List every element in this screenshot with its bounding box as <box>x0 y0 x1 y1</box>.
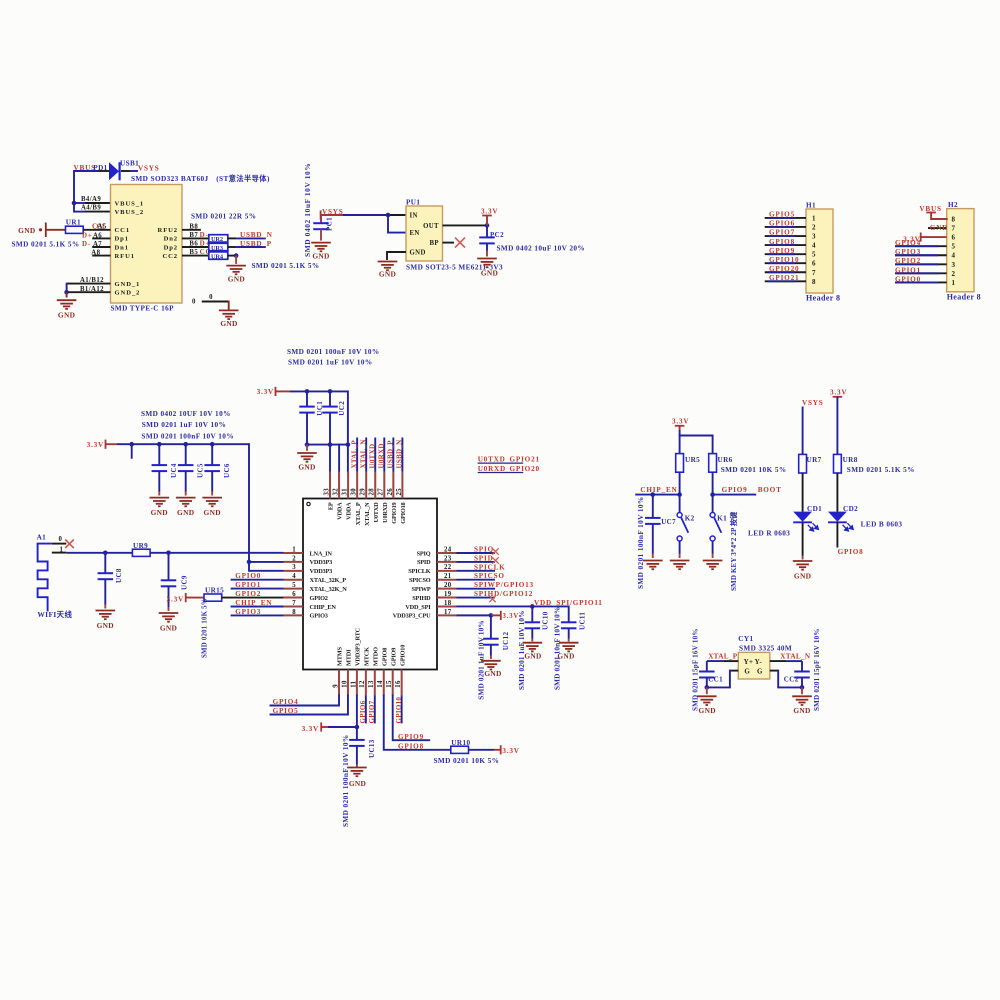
wire H2 pin 3 <box>895 263 947 265</box>
svg-text:8: 8 <box>292 609 296 616</box>
designator UC2 <box>338 401 346 416</box>
svg-text:USBD_N: USBD_N <box>240 231 273 239</box>
power port 3.3V (UC1 rail) <box>257 387 276 396</box>
svg-text:XTAL_N: XTAL_N <box>364 502 371 526</box>
svg-text:GPIO3: GPIO3 <box>895 248 921 256</box>
svg-text:3: 3 <box>952 261 956 269</box>
pin 13 stub <box>368 670 375 696</box>
svg-text:MTMS: MTMS <box>337 647 344 666</box>
svg-text:PU1: PU1 <box>406 198 420 206</box>
svg-text:K1: K1 <box>717 514 727 522</box>
svg-text:19: 19 <box>444 591 452 598</box>
svg-text:32: 32 <box>332 488 339 496</box>
pin 20 stub <box>437 582 457 589</box>
pin 31 stub <box>342 472 349 499</box>
ground UC8 <box>96 611 116 631</box>
pin 16 stub <box>395 670 402 696</box>
power port 3.3V (H2 pin 6) <box>903 233 946 244</box>
svg-text:3.3V: 3.3V <box>503 613 520 620</box>
svg-text:D-: D- <box>82 240 91 248</box>
value LED B 0603 <box>861 520 903 528</box>
net label GPIO21 (H1 pin 8) <box>769 274 799 282</box>
svg-text:GPIO19: GPIO19 <box>391 502 398 523</box>
net label GPIO6 vertical <box>359 700 367 723</box>
svg-text:31: 31 <box>342 488 349 496</box>
designator CC1 <box>708 675 723 683</box>
wire diode to VSYS <box>121 170 138 172</box>
svg-text:U0TXD: U0TXD <box>373 502 380 523</box>
svg-text:UC9: UC9 <box>181 575 189 590</box>
value SMD 0201 10K 5% (UR15) <box>202 598 209 658</box>
capacitor UC11 <box>561 606 577 641</box>
svg-text:GPIO18: GPIO18 <box>400 502 407 523</box>
net label GPIO7 vertical <box>368 700 376 723</box>
svg-text:28: 28 <box>369 488 376 496</box>
svg-text:GPIO8: GPIO8 <box>769 238 795 246</box>
svg-text:GPIO9: GPIO9 <box>398 733 424 741</box>
svg-text:GPIO9: GPIO9 <box>722 486 748 494</box>
net label XTAL_N vertical <box>359 439 367 468</box>
net label GPIO8 (CD2) <box>838 548 864 556</box>
svg-text:GND: GND <box>481 269 498 278</box>
wire VDD_SPI pin 18 <box>457 604 569 609</box>
svg-text:USBD_P: USBD_P <box>387 440 395 469</box>
net label GPIO3 (H2 pin 4) <box>895 248 921 256</box>
pin GND_2 B1/A12 <box>67 286 111 293</box>
ground UC11 <box>557 643 578 661</box>
svg-text:B6: B6 <box>189 241 198 248</box>
pin GND of PU1 to ground <box>387 252 406 259</box>
wire to VBUS_1 pin B4/A9 <box>74 196 111 203</box>
pin 24 stub <box>437 546 457 553</box>
capacitor UC1 <box>299 391 315 444</box>
wire pin 25 up <box>401 438 403 472</box>
ground PC1 <box>311 243 331 261</box>
svg-text:10: 10 <box>341 680 348 688</box>
net label GPIO1 (H2 pin 2) <box>895 266 921 274</box>
svg-text:SMD 0201 10K 5%: SMD 0201 10K 5% <box>202 598 209 658</box>
wire UR8 to CD2 <box>836 473 838 512</box>
wire pin 13 GPIO7 <box>374 696 376 724</box>
svg-text:GND: GND <box>298 463 315 472</box>
pin 28 stub <box>369 472 376 499</box>
svg-text:17: 17 <box>444 609 452 616</box>
svg-text:GPIO7: GPIO7 <box>368 700 376 723</box>
pin 2 stub <box>284 555 304 562</box>
svg-text:Header 8: Header 8 <box>806 294 840 303</box>
svg-text:SPIHD/GPIO12: SPIHD/GPIO12 <box>474 590 533 598</box>
svg-text:GPIO4: GPIO4 <box>895 239 921 247</box>
svg-text:A6: A6 <box>93 232 102 239</box>
wire H2 pin 4 <box>895 254 947 256</box>
svg-text:U0TXD: U0TXD <box>478 455 506 463</box>
svg-text:SMD 0201 1uF 10V 10%: SMD 0201 1uF 10V 10% <box>288 359 373 367</box>
pin 8 stub <box>284 609 304 616</box>
svg-text:H2: H2 <box>948 201 958 209</box>
junction UC9 <box>166 551 171 556</box>
value SMD 0402 10uF 10V 10% (PC1) <box>303 163 312 257</box>
power port 3.3V at OUT <box>481 207 498 225</box>
switch K2 <box>677 495 695 558</box>
wire CC1 to ground <box>706 687 708 694</box>
pin RFU1 A8 <box>91 249 110 256</box>
wire G pin right to CC2 bottom <box>770 671 805 690</box>
svg-text:5: 5 <box>292 582 296 589</box>
wire VSYS to UR7 <box>802 407 804 455</box>
svg-text:GPIO5: GPIO5 <box>273 707 299 715</box>
svg-text:GND: GND <box>379 270 396 279</box>
svg-text:GND: GND <box>18 226 35 235</box>
designator UC6 <box>223 463 231 478</box>
svg-text:GPIO6: GPIO6 <box>769 220 795 228</box>
pin Dp2 B6/D+ <box>182 240 210 248</box>
ground CC2 <box>792 696 812 715</box>
wire 3.3V down to pins 31 32 <box>330 391 348 471</box>
svg-text:G: G <box>757 668 763 676</box>
capacitor UC12 <box>483 615 499 659</box>
svg-text:Y+: Y+ <box>744 658 754 666</box>
svg-text:0: 0 <box>192 299 196 306</box>
wire H1 pin 7 <box>765 271 806 273</box>
svg-text:30: 30 <box>351 488 358 496</box>
svg-text:5: 5 <box>812 251 816 259</box>
svg-text:UC12: UC12 <box>502 631 510 650</box>
svg-text:GND: GND <box>793 706 810 715</box>
svg-text:UC8: UC8 <box>115 568 123 583</box>
wire OUT to 3.3V <box>443 223 490 228</box>
svg-text:SPICSO: SPICSO <box>474 572 505 580</box>
resistor UR8 <box>834 454 858 473</box>
svg-text:6: 6 <box>292 591 296 598</box>
wire pin 30 up <box>356 438 358 472</box>
resistor UR7 <box>799 454 822 473</box>
net label SPID <box>474 554 494 562</box>
resistor UR15 <box>186 587 224 602</box>
wire pin 22 right <box>457 570 496 572</box>
svg-text:5: 5 <box>952 243 956 251</box>
designator UC1 <box>316 401 324 416</box>
junction dots bottom <box>305 442 351 447</box>
svg-text:3.3V: 3.3V <box>167 596 184 604</box>
svg-text:RFU2: RFU2 <box>158 227 178 234</box>
svg-text:PC1: PC1 <box>326 217 334 231</box>
svg-text:GPIO2: GPIO2 <box>310 595 328 602</box>
svg-text:GPIO0: GPIO0 <box>235 572 261 580</box>
svg-text:UR10: UR10 <box>451 739 470 747</box>
svg-text:CY1: CY1 <box>738 635 753 643</box>
wire UR7 to CD1 <box>802 473 804 512</box>
designator UC7 <box>661 518 676 526</box>
pin Dn1 D-/A7 <box>82 240 111 248</box>
svg-text:1: 1 <box>60 546 64 553</box>
value SMD 0201 1uF 10V 10% (UC12) <box>478 620 486 700</box>
svg-text:A1: A1 <box>37 533 47 541</box>
value label SMD 0201 22R 5% <box>191 213 256 221</box>
resistor UR6 <box>709 454 733 473</box>
wire H1 pin 1 <box>765 217 806 219</box>
ground power port at UR1 <box>18 223 65 238</box>
svg-text:A5: A5 <box>98 223 107 230</box>
svg-text:XTAL_P: XTAL_P <box>350 440 358 469</box>
antenna pin 1 feed <box>52 546 67 553</box>
power port 3.3V at UR10 <box>501 745 520 755</box>
wire to VBUS_2 pin A4/B9 <box>74 204 111 211</box>
svg-text:VDDA: VDDA <box>337 502 344 520</box>
svg-text:UR6: UR6 <box>718 456 733 464</box>
svg-text:GND: GND <box>58 311 75 320</box>
pin CC2 B5/CC <box>182 248 211 256</box>
svg-text:GPIO8: GPIO8 <box>838 548 864 556</box>
label USB1 <box>120 160 139 168</box>
designator UC11 <box>579 612 587 630</box>
pin 29 stub <box>360 472 367 499</box>
value SMD 0201 100nF 10V 10% <box>141 433 234 441</box>
net label GPIO8 (H1 pin 4) <box>769 238 795 246</box>
net label GPIO9 (H1 pin 5) <box>769 247 795 255</box>
svg-text:A8: A8 <box>91 249 100 256</box>
capacitor UC8 <box>98 553 114 609</box>
svg-text:PD1: PD1 <box>93 164 107 172</box>
svg-text:VBUS_2: VBUS_2 <box>115 209 145 216</box>
svg-text:UC13: UC13 <box>368 739 376 758</box>
pin 7 stub <box>284 600 304 607</box>
wire H1 pin 2 <box>765 226 806 228</box>
svg-text:Dp1: Dp1 <box>115 236 129 243</box>
wire GPIO8 from pin 14 <box>384 696 451 750</box>
svg-text:GND: GND <box>312 252 329 261</box>
svg-text:GND: GND <box>794 572 811 581</box>
designator PC1 <box>326 217 334 231</box>
svg-text:SMD 0201 100nF 10V 10%: SMD 0201 100nF 10V 10% <box>287 348 380 356</box>
svg-text:0: 0 <box>209 294 213 301</box>
svg-text:GND: GND <box>410 249 426 256</box>
value SMD 0201 100nF 10V 10% (UC13) <box>342 734 350 827</box>
wire pin 17 VDD3P3_CPU <box>457 613 494 618</box>
net label BOOT <box>758 486 782 494</box>
no-connect marks <box>489 548 498 602</box>
wire 3.3V rail <box>276 390 348 392</box>
net label VSYS (CD1) <box>802 399 824 407</box>
pin 32 stub <box>332 472 339 499</box>
svg-text:SMD 0201 5.1K 5%: SMD 0201 5.1K 5% <box>12 241 80 249</box>
pin 25 stub <box>396 472 403 499</box>
svg-text:29: 29 <box>360 488 367 496</box>
wire Y- pin to CC2 <box>770 661 802 671</box>
connector shell pin 0 stubs <box>192 294 229 310</box>
wire pin 16 GPIO10 <box>401 696 403 724</box>
svg-text:2: 2 <box>812 223 816 231</box>
svg-text:7: 7 <box>812 269 816 277</box>
svg-text:XTAL_32K_P: XTAL_32K_P <box>310 577 347 584</box>
wire CHIP_EN net <box>635 492 682 497</box>
svg-text:RFU1: RFU1 <box>115 253 135 260</box>
svg-text:GPIO3: GPIO3 <box>235 608 261 616</box>
header H2 <box>947 201 981 301</box>
wire pin 21 right <box>457 579 496 581</box>
svg-text:4: 4 <box>952 252 956 260</box>
pin 10 stub <box>341 670 348 696</box>
capacitor UC10 <box>525 606 541 641</box>
wire GPIO9 from pin 15 <box>393 696 430 741</box>
svg-text:GPIO2: GPIO2 <box>235 590 261 598</box>
svg-text:GND: GND <box>484 669 501 678</box>
wire VBUS to diode <box>74 170 109 172</box>
net label GPIO4 (H2 pin 5) <box>895 239 921 247</box>
svg-text:VDD3P3_CPU: VDD3P3_CPU <box>393 613 432 620</box>
wire UR2 to USBD_N <box>228 237 266 239</box>
ground CD1 <box>793 561 813 581</box>
svg-text:8: 8 <box>812 278 816 286</box>
svg-text:GND: GND <box>177 508 194 517</box>
svg-text:GPIO20: GPIO20 <box>510 465 540 473</box>
wire pin 19 right <box>457 597 496 599</box>
net label GPIO6 (H1 pin 2) <box>769 220 795 228</box>
svg-text:8: 8 <box>952 216 956 224</box>
power port 3.3V (left rail) <box>87 440 106 450</box>
junction UC5 <box>183 442 188 447</box>
svg-text:XTAL_32K_N: XTAL_32K_N <box>310 586 348 593</box>
capacitor PC2 <box>479 225 495 256</box>
wire H1 pin 4 <box>765 244 806 246</box>
svg-text:BP: BP <box>430 240 440 247</box>
capacitor CC2 <box>794 672 810 688</box>
svg-text:U0TXD: U0TXD <box>368 444 376 469</box>
value SMD 0201 10nF 10V 10% (UC11) <box>554 607 562 690</box>
svg-text:VDD_SPI: VDD_SPI <box>405 604 431 611</box>
svg-text:CC1: CC1 <box>708 675 723 683</box>
svg-text:GND: GND <box>930 224 948 232</box>
ground K2 <box>670 561 690 570</box>
net label GPIO4 <box>273 698 299 706</box>
svg-text:VSYS: VSYS <box>138 164 160 172</box>
wire 3.3V to UR8 <box>836 397 838 455</box>
wire CD2 to GPIO8 <box>836 522 838 547</box>
svg-text:SPIWP/GPIO13: SPIWP/GPIO13 <box>474 581 534 589</box>
svg-text:LED B 0603: LED B 0603 <box>861 520 903 528</box>
svg-text:SMD 0201 10K 5%: SMD 0201 10K 5% <box>721 466 787 474</box>
svg-text:XTAL_N: XTAL_N <box>359 439 367 468</box>
resistor UR10 <box>451 739 471 753</box>
designator UC13 <box>368 739 376 758</box>
svg-text:UC11: UC11 <box>579 612 587 630</box>
svg-text:UC7: UC7 <box>661 518 676 526</box>
svg-text:3.3V: 3.3V <box>302 725 319 733</box>
svg-text:SPIWP: SPIWP <box>412 586 431 593</box>
wire CC2 to ground <box>801 687 803 694</box>
svg-text:12: 12 <box>359 680 366 688</box>
svg-text:15: 15 <box>386 680 393 688</box>
wire G pin left to CC1 bottom <box>705 671 739 690</box>
resistor UR3 <box>209 243 228 252</box>
svg-text:2: 2 <box>292 555 296 562</box>
net label SPIQ <box>474 546 494 554</box>
designator CC2 <box>784 675 799 683</box>
wire VSYS to PU1 IN <box>321 214 406 216</box>
net label XTAL_N (crystal) <box>780 653 811 661</box>
resistor UR9 <box>132 542 150 556</box>
ground UC9 <box>159 613 179 633</box>
svg-text:3: 3 <box>292 564 296 571</box>
svg-text:16: 16 <box>395 680 402 688</box>
svg-text:GPIO21: GPIO21 <box>510 455 540 463</box>
value SMD KEY 3*4*2 2P (K1 K2) <box>729 511 738 591</box>
svg-text:3.3V: 3.3V <box>502 747 519 755</box>
wire H1 pin 3 <box>765 235 806 237</box>
wire H2 pin 1 <box>895 281 947 283</box>
pin 26 stub <box>387 472 394 499</box>
svg-text:SMD 0201 5.1K 5%: SMD 0201 5.1K 5% <box>252 262 320 270</box>
ground UC13 <box>347 768 367 789</box>
svg-text:7: 7 <box>952 225 956 233</box>
wire pin 20 right <box>457 588 496 590</box>
designator PC2 <box>490 231 504 239</box>
svg-text:SMD KEY 3*4*2 2P 按键: SMD KEY 3*4*2 2P 按键 <box>729 511 738 591</box>
value SMD 0201 10K 5% (UR5 UR6) <box>721 466 787 474</box>
svg-text:27: 27 <box>378 488 385 496</box>
svg-text:CC2: CC2 <box>162 253 178 260</box>
junction UC1 top <box>305 389 310 394</box>
net label CHIP_EN <box>640 486 677 494</box>
svg-text:VBUS_1: VBUS_1 <box>115 200 145 207</box>
value SMD 0201 10K 5% (UR10) <box>434 757 500 765</box>
wire pin 26 up <box>392 438 394 472</box>
wire UR15 to chip pin 6 <box>222 597 284 599</box>
svg-text:GPIO10: GPIO10 <box>769 256 799 264</box>
value SMD SOT23-5 ME6211-3V3 <box>406 263 503 271</box>
svg-text:GPIO10: GPIO10 <box>399 645 406 666</box>
junction UC4 <box>157 442 162 447</box>
svg-text:GPIO3: GPIO3 <box>310 613 328 620</box>
wire pin 11 VDD3P3_RTC to 3.3V <box>321 696 359 730</box>
pin 27 stub <box>378 472 385 499</box>
svg-text:3.3V: 3.3V <box>672 417 689 425</box>
pin GND_1 A1/B12 <box>67 277 111 284</box>
antenna pin 0 no-connect <box>52 536 74 548</box>
wire chip pin 7 left <box>231 606 284 608</box>
pin 4 stub <box>284 573 304 580</box>
value label SMD 0201 5.1K 5% (UR1) <box>12 241 80 249</box>
resistor UR4 <box>209 252 228 261</box>
wire pin 29 up <box>365 438 367 472</box>
svg-text:USBD_P: USBD_P <box>240 240 272 248</box>
value SMD 0201 1uF 10V 10% (UC10) <box>518 610 526 690</box>
wire UR3 to USBD_P <box>228 246 266 248</box>
svg-text:GPIO4: GPIO4 <box>273 698 299 706</box>
net label GPIO5 <box>273 707 299 715</box>
capacitor UC4 <box>152 444 168 495</box>
net label GPIO10 (H1 pin 6) <box>769 256 799 264</box>
pin 17 stub <box>437 609 457 616</box>
svg-text:21: 21 <box>444 573 452 580</box>
svg-text:U0RXD: U0RXD <box>478 465 506 473</box>
svg-text:GPIO20: GPIO20 <box>769 265 799 273</box>
net label GPIO3 <box>235 608 261 616</box>
svg-text:Dn2: Dn2 <box>164 236 178 243</box>
junction VBUS <box>72 201 77 206</box>
svg-text:D-: D- <box>200 231 209 239</box>
pin 3 stub <box>284 564 304 571</box>
svg-text:SPID: SPID <box>417 559 431 566</box>
pin 30 stub <box>351 472 358 499</box>
svg-text:GPIO2: GPIO2 <box>895 257 921 265</box>
svg-text:GND: GND <box>204 508 221 517</box>
svg-text:UR1: UR1 <box>66 219 81 227</box>
value SMD 0201 5.1K 5% (UR8) <box>847 466 915 474</box>
value label SMD SOD323 BAT60J <box>131 174 270 183</box>
capacitor UC2 <box>322 391 338 444</box>
ground UC6 <box>202 498 222 517</box>
svg-text:3.3V: 3.3V <box>481 207 498 215</box>
